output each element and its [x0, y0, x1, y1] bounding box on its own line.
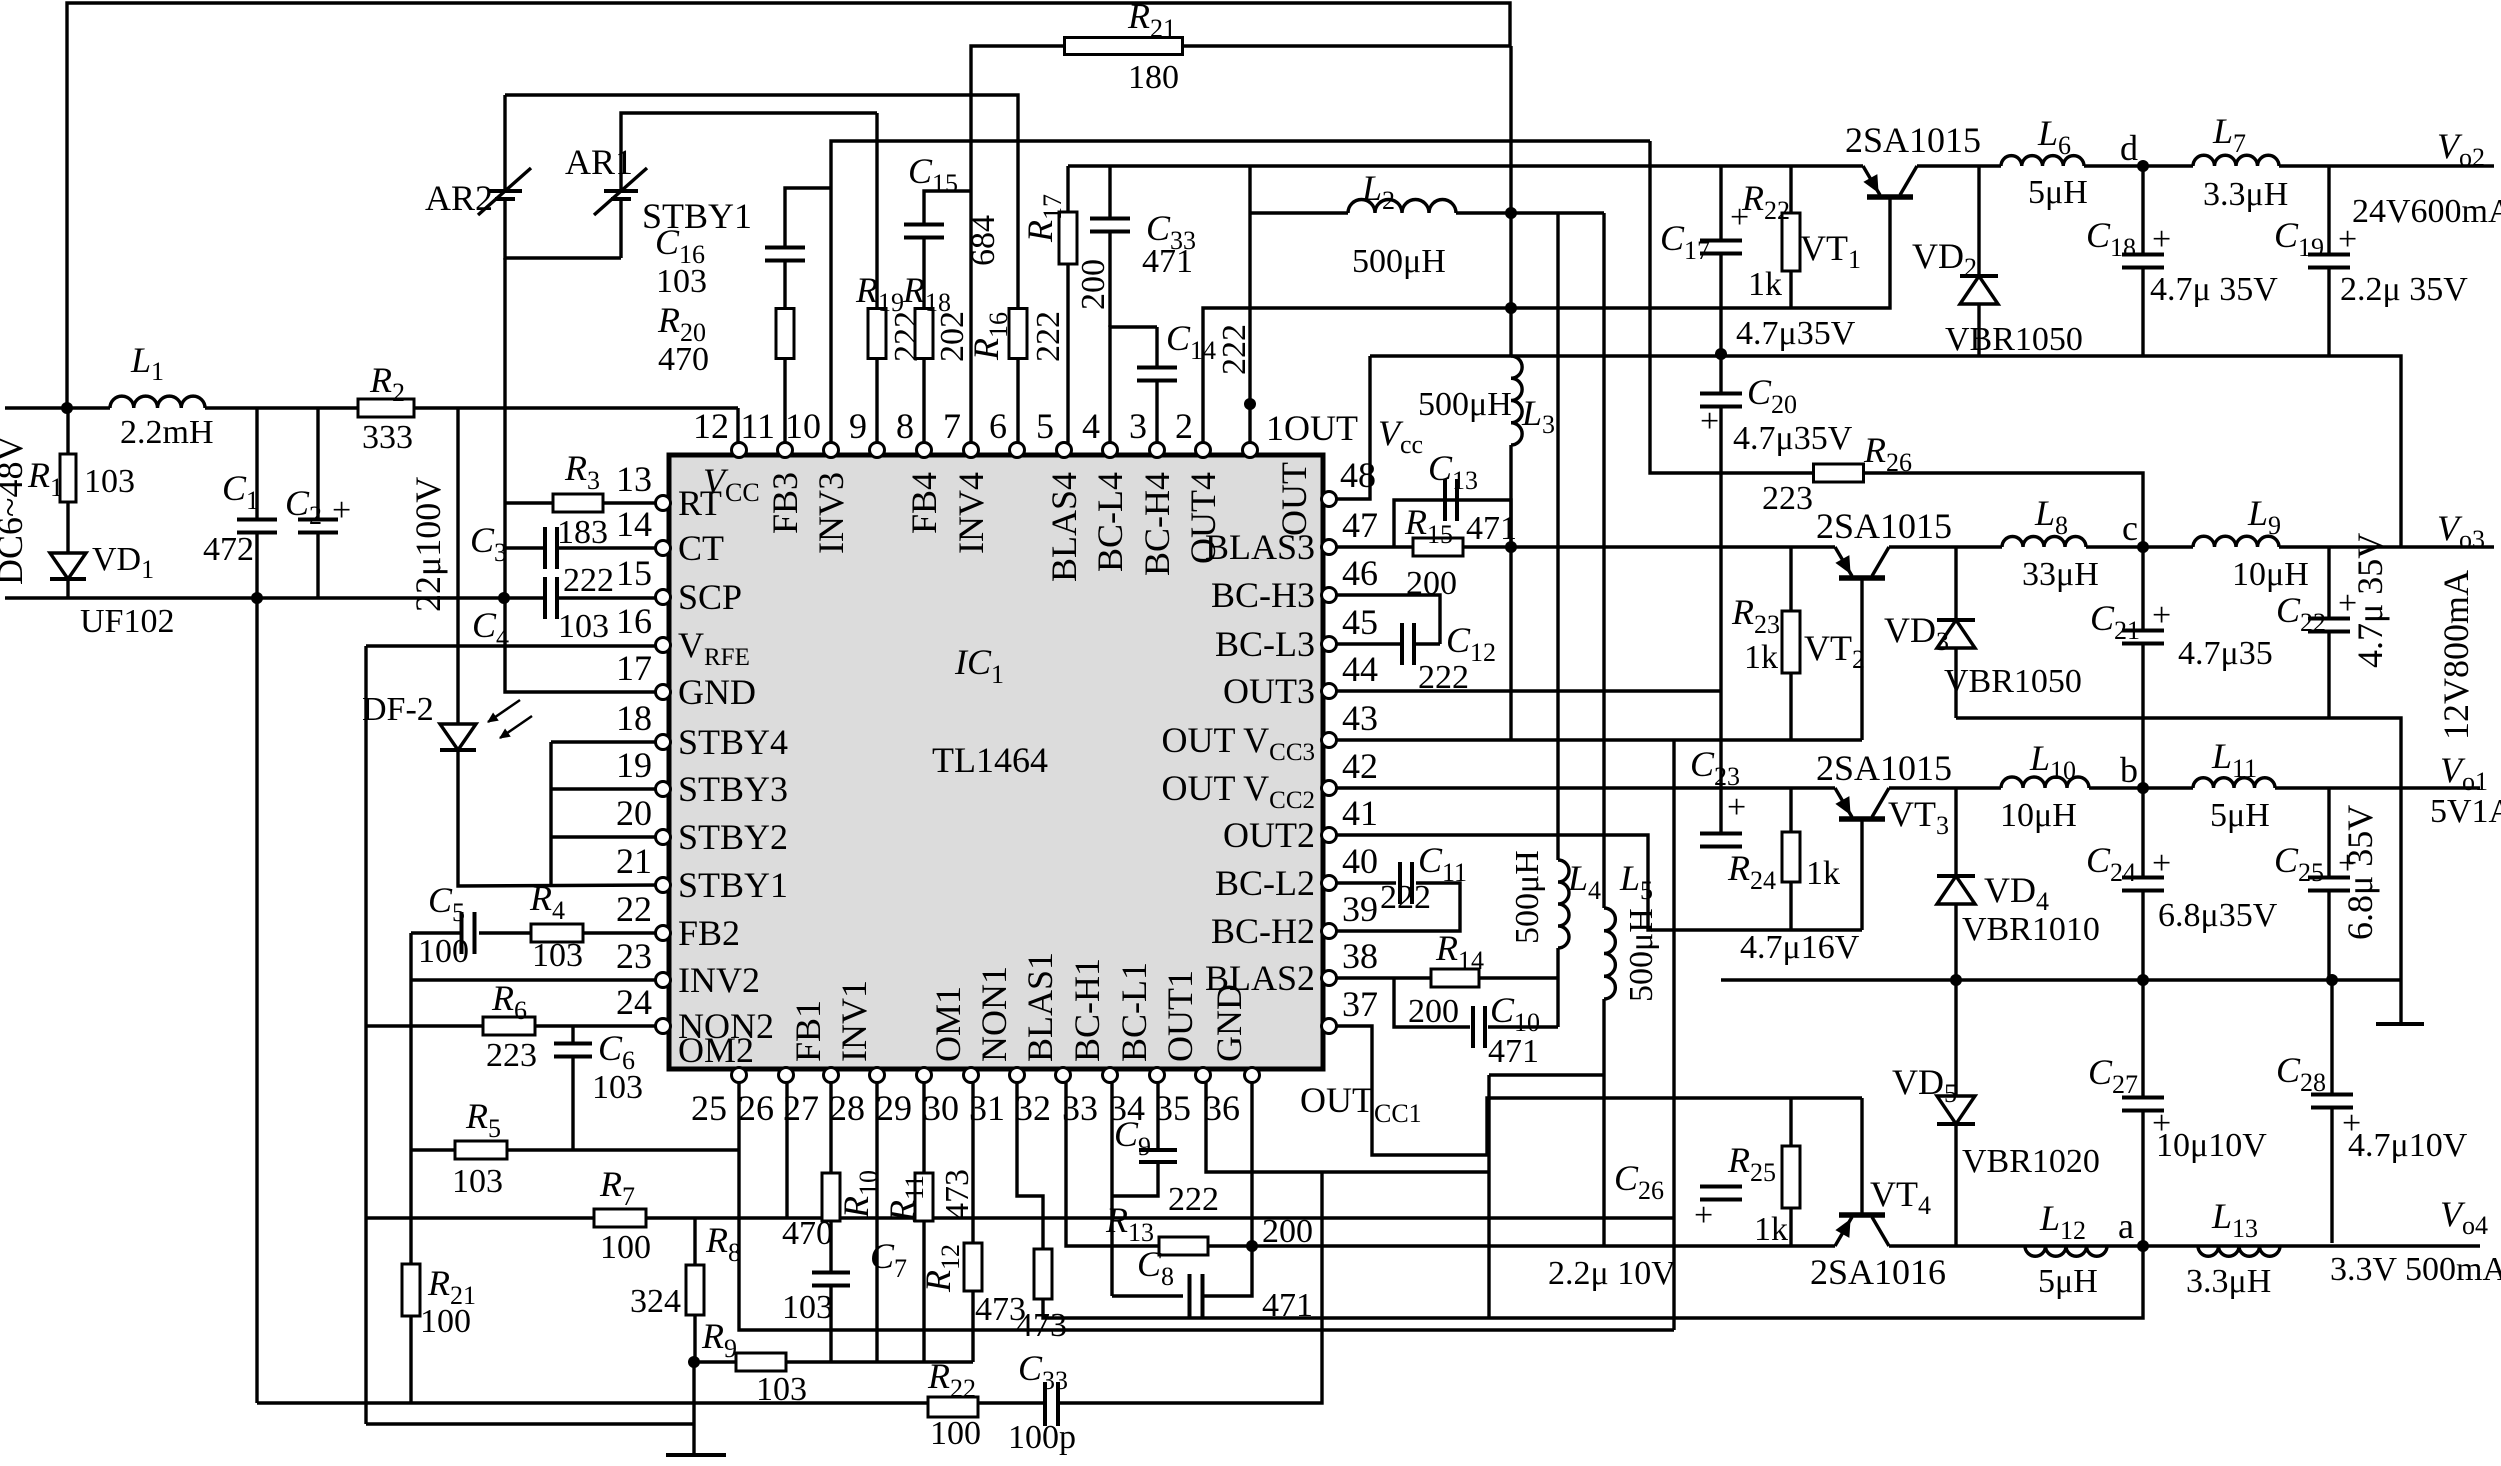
svg-text:BC-L2: BC-L2 [1215, 863, 1315, 903]
resistor R3 183 on pin13 RT [505, 501, 553, 504]
svg-text:103: 103 [656, 263, 707, 300]
inductor L4 500uH vertical [1556, 213, 1559, 860]
wire Vo4 rail [1322, 1244, 1835, 1247]
resistor R8 324 [693, 1218, 696, 1266]
svg-text:3.3V 500mA: 3.3V 500mA [2330, 1251, 2501, 1288]
wire output3 return rail y718 [1956, 718, 2401, 1024]
svg-text:BC-L4: BC-L4 [1090, 472, 1130, 572]
svg-text:FB1: FB1 [788, 1000, 828, 1062]
wire pin44 OUT3 [1329, 689, 1721, 692]
svg-text:OUT1: OUT1 [1160, 970, 1200, 1062]
capacitor C11 222 bridging pins40-39 [1329, 881, 1396, 884]
capacitor C25 6.8u35V [2327, 788, 2330, 877]
svg-text:10: 10 [785, 406, 821, 446]
transistor VT1 2SA1015 [1867, 194, 1913, 200]
svg-text:4.7μ35V: 4.7μ35V [1733, 420, 1853, 457]
resistor R11 473 pin29 [922, 1077, 925, 1173]
resistor R13 200 [1066, 1077, 1159, 1246]
svg-text:200: 200 [1408, 993, 1459, 1030]
wire ground rail [5, 596, 547, 599]
inductor L12 5uH [2025, 1246, 2107, 1256]
capacitor C21 4.7u35 [2141, 547, 2144, 630]
capacitor C26 2.2u10V [1700, 1187, 1742, 1200]
svg-text:17: 17 [616, 648, 652, 688]
svg-text:TL1464: TL1464 [932, 740, 1048, 780]
IC left pins 13-24 [656, 496, 671, 511]
wire base rail y740 pin43 [1329, 738, 1862, 741]
wire pin33 vertical [1110, 1077, 1113, 1296]
svg-text:1k: 1k [1754, 1211, 1788, 1248]
arrester AR1 [619, 199, 622, 258]
svg-text:473: 473 [939, 1169, 976, 1220]
svg-text:4.7μ35: 4.7μ35 [2178, 635, 2273, 672]
svg-text:37: 37 [1342, 984, 1378, 1024]
svg-text:18: 18 [616, 698, 652, 738]
ground symbol bottom [692, 1362, 695, 1455]
wire DF-2 vertical from rail [456, 408, 459, 724]
resistor R16 222 [1009, 309, 1027, 359]
svg-text:103: 103 [558, 608, 609, 645]
svg-text:38: 38 [1342, 936, 1378, 976]
capacitor C17 4.7u35V [1719, 166, 1722, 240]
capacitor C4 on pin15 SCP [545, 577, 557, 619]
svg-text:100: 100 [418, 933, 469, 970]
svg-text:DF-2: DF-2 [362, 691, 434, 728]
svg-text:222: 222 [1216, 324, 1253, 375]
svg-text:28: 28 [829, 1088, 865, 1128]
svg-text:+: + [2152, 597, 2171, 634]
inductor L5 500uH vertical [1602, 213, 1605, 908]
svg-text:2.2μ 35V: 2.2μ 35V [2340, 271, 2468, 308]
svg-text:1OUT: 1OUT [1266, 408, 1358, 448]
svg-text:STBY1: STBY1 [678, 865, 788, 905]
svg-text:BC-H4: BC-H4 [1137, 472, 1177, 576]
wire pin20 stub [551, 835, 663, 838]
svg-text:180: 180 [1128, 59, 1179, 96]
svg-text:31: 31 [969, 1088, 1005, 1128]
inductor L2 500uH [1250, 211, 1348, 214]
svg-text:471: 471 [1142, 243, 1193, 280]
svg-text:3.3μH: 3.3μH [2186, 1263, 2271, 1300]
svg-text:27: 27 [783, 1088, 819, 1128]
resistor R12 473 pin30 [971, 1077, 974, 1243]
wire pin23 INV2 [411, 978, 663, 981]
svg-text:5V1A: 5V1A [2430, 793, 2501, 830]
svg-text:200: 200 [1075, 259, 1112, 310]
wire pin26 vertical [785, 1077, 788, 1218]
wire pin1 OUT vertical [1248, 166, 1251, 443]
resistor R21 180 [1065, 38, 1183, 55]
resistor R24 1k [1789, 788, 1792, 832]
inductor L8 33uH [2002, 537, 2086, 548]
wire pin35 branch to L5 [1489, 1073, 1604, 1076]
svg-text:VBR1050: VBR1050 [1944, 663, 2082, 700]
capacitor C33 100p [1045, 1382, 1058, 1426]
svg-text:15: 15 [616, 553, 652, 593]
svg-text:+: + [332, 492, 351, 529]
svg-text:SCP: SCP [678, 577, 742, 617]
svg-text:200: 200 [1262, 1213, 1313, 1250]
inductor L1 [67, 406, 110, 409]
svg-text:BC-L3: BC-L3 [1215, 624, 1315, 664]
transistor VT4 2SA1016 [1860, 1098, 1863, 1216]
svg-text:471: 471 [1262, 1287, 1313, 1324]
resistor R5 103 [455, 1141, 507, 1159]
wire pin7 INV4 to R21 180 [971, 46, 1064, 443]
svg-text:47: 47 [1342, 505, 1378, 545]
wire pin28 INV1 [875, 1077, 878, 1362]
capacitor C6 103 [571, 1026, 574, 1043]
svg-text:INV2: INV2 [678, 960, 760, 1000]
svg-text:UF102: UF102 [80, 603, 174, 640]
transistor VT3 2SA1015 [1839, 816, 1885, 822]
svg-text:9: 9 [849, 406, 867, 446]
svg-text:5μH: 5μH [2028, 174, 2088, 211]
svg-text:34: 34 [1109, 1088, 1145, 1128]
wire rail to pin 12 [736, 408, 739, 443]
wire R7 rail y1218 [366, 1216, 1674, 1219]
ground symbol right [2376, 1022, 2424, 1026]
svg-text:5μH: 5μH [2210, 797, 2270, 834]
wire x411 vertical [409, 933, 412, 1265]
svg-text:3.3μH: 3.3μH [2203, 176, 2288, 213]
svg-text:472: 472 [203, 531, 254, 568]
svg-text:FB2: FB2 [678, 913, 740, 953]
diode VD2 VBR1050 [1977, 166, 1980, 276]
svg-text:12: 12 [693, 406, 729, 446]
capacitor C3 on pin14 CT [505, 546, 547, 549]
capacitor C24 6.8u35V [2141, 788, 2144, 877]
svg-text:500μH: 500μH [1509, 850, 1546, 944]
capacitor C5 100 with R4 103 pin22 FB2 [583, 931, 663, 934]
wire x1674 vertical [1672, 740, 1675, 1330]
svg-text:500μH: 500μH [1623, 908, 1660, 1002]
svg-text:BC-L1: BC-L1 [1114, 962, 1154, 1062]
svg-text:43: 43 [1342, 698, 1378, 738]
svg-text:DC6~48V: DC6~48V [0, 436, 30, 585]
resistor R19 222 [868, 309, 886, 359]
svg-text:BC-H3: BC-H3 [1211, 575, 1315, 615]
photodiode DF-2 [440, 724, 476, 750]
svg-text:39: 39 [1342, 889, 1378, 929]
svg-text:473: 473 [975, 1291, 1026, 1328]
wire emitter rail y166 R17 to VT1 [1068, 164, 1863, 167]
diode VD5 VBR1020 [1954, 980, 1957, 1096]
wire pin35 OUT1 [1206, 1077, 1489, 1172]
svg-text:BC-H2: BC-H2 [1211, 911, 1315, 951]
svg-text:45: 45 [1342, 602, 1378, 642]
svg-text:INV4: INV4 [951, 472, 991, 554]
svg-text:4.7μ 35V: 4.7μ 35V [2350, 533, 2390, 668]
resistor R22 1k [1789, 166, 1792, 213]
wire pin41 OUT2 to VT3 base [1329, 835, 1862, 930]
wire VCC bus x1511 from R21 [1509, 46, 1512, 356]
wire output1 return rail y980 [1721, 978, 2400, 981]
wire R5 row [411, 1148, 739, 1151]
resistor R25 1k [1789, 1098, 1792, 1146]
IC bottom pins 25-36 [732, 1068, 747, 1083]
wire x257 vertical [255, 598, 258, 1403]
svg-text:OUT2: OUT2 [1223, 815, 1315, 855]
svg-text:500μH: 500μH [1352, 243, 1446, 280]
node dots input [61, 402, 73, 414]
svg-text:6.8μ 35V: 6.8μ 35V [2340, 805, 2380, 940]
svg-text:44: 44 [1342, 649, 1378, 689]
svg-text:16: 16 [616, 601, 652, 641]
svg-text:100: 100 [600, 1229, 651, 1266]
svg-text:VBR1010: VBR1010 [1962, 911, 2100, 948]
svg-text:202: 202 [934, 311, 971, 362]
capacitor C8 471 [1112, 1294, 1183, 1297]
svg-text:103: 103 [782, 1289, 833, 1326]
svg-text:VBR1050: VBR1050 [1945, 321, 2083, 358]
svg-text:VBR1020: VBR1020 [1962, 1143, 2100, 1180]
svg-text:4.7μ10V: 4.7μ10V [2348, 1127, 2468, 1164]
svg-text:BLAS1: BLAS1 [1020, 952, 1060, 1062]
svg-text:OUT3: OUT3 [1223, 671, 1315, 711]
svg-text:INV3: INV3 [811, 472, 851, 554]
svg-text:22μ100V: 22μ100V [408, 477, 448, 612]
inductor L6 5uH [2001, 156, 2084, 166]
svg-text:222: 222 [1168, 1181, 1219, 1218]
capacitor C15 [904, 225, 944, 238]
svg-text:4.7μ16V: 4.7μ16V [1740, 929, 1860, 966]
svg-text:40: 40 [1342, 841, 1378, 881]
svg-text:4.7μ 35V: 4.7μ 35V [2150, 271, 2278, 308]
svg-text:4: 4 [1082, 406, 1100, 446]
resistor R26 223 [1814, 464, 1864, 482]
svg-text:STBY4: STBY4 [678, 722, 788, 762]
svg-text:5: 5 [1036, 406, 1054, 446]
resistor R12b 473 on pin31 drop [1034, 1249, 1052, 1299]
svg-text:OM1: OM1 [928, 986, 968, 1062]
svg-text:2.2μ 10V: 2.2μ 10V [1548, 1255, 1676, 1292]
capacitor C18 4.7u35V [2141, 166, 2144, 254]
resistor R2 [358, 399, 414, 417]
svg-text:20: 20 [616, 793, 652, 833]
svg-text:8: 8 [896, 406, 914, 446]
inductor L11 5uH [2193, 778, 2275, 788]
svg-text:OUT: OUT [1274, 462, 1314, 536]
svg-text:100p: 100p [1008, 1419, 1076, 1456]
svg-text:223: 223 [486, 1037, 537, 1074]
capacitor C1 472 [255, 408, 258, 520]
svg-text:471: 471 [1488, 1033, 1539, 1070]
IC top pins 12-1 [732, 443, 747, 458]
svg-text:GND: GND [678, 672, 756, 712]
svg-text:23: 23 [616, 936, 652, 976]
svg-text:33μH: 33μH [2022, 556, 2099, 593]
svg-text:10μ10V: 10μ10V [2156, 1127, 2267, 1164]
svg-text:33: 33 [1062, 1088, 1098, 1128]
svg-text:2SA1016: 2SA1016 [1810, 1252, 1946, 1292]
transistor VT2 2SA1015 [1839, 575, 1885, 581]
svg-text:222: 222 [1030, 311, 1067, 362]
svg-text:RT: RT [678, 483, 722, 523]
wire pin19 stub [551, 787, 663, 790]
resistor R6 223 on pin24 [534, 1024, 663, 1027]
resistor R21 100 bottom [402, 1264, 420, 1316]
svg-text:11: 11 [740, 406, 775, 446]
svg-text:2SA1015: 2SA1015 [1816, 748, 1952, 788]
svg-text:48: 48 [1340, 455, 1376, 495]
IC right pins 48-37 [1322, 492, 1337, 507]
svg-text:100: 100 [930, 1415, 981, 1452]
resistor R18 202 chain pin8 FB4 with C15 [922, 358, 925, 443]
capacitor C14 222 on pin3 [1155, 327, 1158, 368]
svg-text:1k: 1k [1748, 266, 1782, 303]
inductor L9 10uH [2193, 536, 2279, 547]
resistor R23 1k [1789, 547, 1792, 611]
svg-text:103: 103 [84, 463, 135, 500]
inductor L13 3.3uH [2198, 1246, 2280, 1256]
svg-text:42: 42 [1342, 746, 1378, 786]
diode VD3 VBR1050 [1954, 547, 1957, 620]
svg-text:6: 6 [989, 406, 1007, 446]
capacitor C13 471 bypass loop over R15 [1394, 500, 1511, 547]
svg-text:35: 35 [1155, 1088, 1191, 1128]
wire pin18 stub [551, 740, 663, 743]
svg-text:2SA1015: 2SA1015 [1845, 120, 1981, 160]
svg-text:BLAS4: BLAS4 [1044, 472, 1084, 582]
svg-text:10μH: 10μH [2232, 556, 2309, 593]
svg-text:333: 333 [362, 419, 413, 456]
svg-text:1k: 1k [1744, 639, 1778, 676]
svg-text:6.8μ35V: 6.8μ35V [2158, 897, 2278, 934]
svg-text:2SA1015: 2SA1015 [1816, 506, 1952, 546]
wire bottom rail y1403 [257, 1401, 928, 1404]
resistor R14 200 on pin38 [1329, 976, 1431, 979]
svg-text:471: 471 [1466, 510, 1517, 547]
svg-text:12V800mA: 12V800mA [2436, 570, 2476, 740]
inductor L10 10uH [2001, 777, 2089, 788]
resistor R1 [66, 408, 69, 455]
svg-text:2.2mH: 2.2mH [120, 414, 214, 451]
wire AR network vertical x505 [503, 95, 506, 191]
wire pin48 OUT to VCC rail [1329, 356, 1370, 499]
svg-text:FB3: FB3 [765, 472, 805, 534]
svg-text:30: 30 [923, 1088, 959, 1128]
svg-text:14: 14 [616, 504, 652, 544]
wire pin10 INV3 to R26 [831, 141, 1650, 443]
capacitor C22 4.7u35V [2327, 547, 2330, 618]
inductor L7 3.3uH [2193, 155, 2279, 166]
capacitor C16 103 chain pin11 FB3 [783, 358, 786, 443]
svg-text:d: d [2120, 128, 2138, 168]
resistor R7 100 [594, 1209, 646, 1227]
node c [2137, 541, 2149, 553]
wire AR1 top to pin9 R19 [875, 113, 878, 309]
svg-text:24: 24 [616, 982, 652, 1022]
wire AR2 top to pin6 R16 [505, 95, 1018, 309]
diode VD1 UF102 [50, 553, 86, 579]
svg-text:b: b [2120, 750, 2138, 790]
svg-text:29: 29 [876, 1088, 912, 1128]
svg-text:24V600mA: 24V600mA [2352, 193, 2501, 230]
svg-text:GND: GND [1209, 984, 1249, 1062]
resistor R15 200 on pin47 BLAS3 wire [1329, 545, 1835, 548]
svg-text:+: + [2338, 221, 2357, 258]
svg-text:46: 46 [1342, 553, 1378, 593]
svg-text:AR2: AR2 [425, 178, 493, 218]
wire pin25 OM2 loop [739, 1077, 1674, 1330]
svg-text:470: 470 [782, 1215, 833, 1252]
capacitor C10 471 loop [1394, 978, 1470, 1027]
resistor R22 100 bottom [928, 1397, 978, 1417]
svg-text:3: 3 [1129, 406, 1147, 446]
resistor R17 200 chain pin5 BLAS4 [1066, 264, 1069, 443]
wire y1424 rail [366, 1422, 694, 1425]
svg-text:AR1: AR1 [565, 142, 633, 182]
wire STBY2-4 bus [549, 742, 552, 886]
svg-text:STBY2: STBY2 [678, 817, 788, 857]
wire x366 VRFE vertical [366, 644, 663, 647]
svg-text:103: 103 [532, 937, 583, 974]
wire rail y1318 pin31 to node a [1017, 1077, 2143, 1318]
svg-text:STBY1: STBY1 [642, 196, 752, 236]
svg-text:BC-H1: BC-H1 [1067, 958, 1107, 1062]
svg-text:4.7μ35V: 4.7μ35V [1736, 315, 1856, 352]
capacitor C12 222 bridging pins45-46 [1329, 595, 1440, 644]
wire pin36 GND vertical [1250, 1077, 1253, 1246]
node d [2137, 160, 2149, 172]
svg-text:223: 223 [1762, 480, 1813, 517]
inductor L3 500uH vertical [1511, 356, 1522, 445]
diode VD4 VBR1010 [1954, 788, 1957, 876]
svg-text:36: 36 [1204, 1088, 1240, 1128]
wire VT4 base path from pin37 [1329, 1026, 1862, 1155]
svg-text:19: 19 [616, 745, 652, 785]
capacitor C20 4.7u35V [1700, 394, 1742, 407]
svg-text:324: 324 [630, 1283, 681, 1320]
svg-text:+: + [1727, 789, 1746, 826]
svg-text:222: 222 [1380, 879, 1431, 916]
resistor R20 470 [783, 261, 786, 309]
wire input top boundary loop [5, 406, 67, 409]
capacitor C19 2.2u35V [2327, 166, 2330, 254]
svg-text:+: + [2152, 845, 2171, 882]
arrester AR2 [488, 189, 522, 193]
svg-text:a: a [2118, 1206, 2134, 1246]
svg-text:OM2: OM2 [678, 1030, 754, 1070]
wire VT2 collector to L8 [1889, 545, 2002, 548]
wire VT1 collector to L6 [1917, 164, 2001, 167]
svg-text:1k: 1k [1806, 855, 1840, 892]
svg-text:183: 183 [557, 514, 608, 551]
svg-text:c: c [2122, 508, 2138, 548]
resistor R10 470 chain pin27 FB1 with C7 103 [829, 1077, 832, 1173]
svg-text:7: 7 [943, 406, 961, 446]
svg-text:41: 41 [1342, 793, 1378, 833]
svg-text:100: 100 [420, 1303, 471, 1340]
svg-text:222: 222 [563, 562, 614, 599]
capacitor C28 4.7u10V [2330, 980, 2333, 1094]
svg-text:2: 2 [1175, 406, 1193, 446]
capacitor C27 10u10V [2141, 980, 2144, 1097]
capacitor C9 222 bridging pins34-33 [1156, 1077, 1159, 1151]
svg-text:103: 103 [452, 1163, 503, 1200]
svg-text:5μH: 5μH [2038, 1263, 2098, 1300]
wire pin42 OUT VCC2 rail to VT3 [1329, 786, 1835, 789]
wire x1489 vertical [1487, 1075, 1490, 1318]
svg-text:FB4: FB4 [904, 472, 944, 534]
svg-text:NON1: NON1 [974, 966, 1014, 1062]
svg-text:+: + [1694, 1197, 1713, 1234]
svg-text:32: 32 [1015, 1088, 1051, 1128]
capacitor C23 4.7u16V [1700, 834, 1742, 847]
capacitor C2 electrolytic [316, 408, 319, 520]
svg-text:26: 26 [738, 1088, 774, 1128]
